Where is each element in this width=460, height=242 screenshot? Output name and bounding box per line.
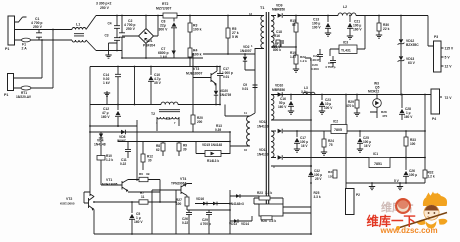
- svg-text:100 k: 100 k: [193, 53, 202, 57]
- svg-text:100 k: 100 k: [193, 28, 202, 32]
- svg-text:12 V: 12 V: [445, 65, 453, 69]
- svg-text:4 700 p: 4 700 p: [200, 222, 211, 226]
- svg-text:120: 120: [328, 175, 333, 179]
- svg-text:470: 470: [382, 114, 387, 118]
- svg-text:7805: 7805: [334, 128, 342, 132]
- svg-text:250 V: 250 V: [33, 25, 43, 29]
- svg-text:100 V: 100 V: [324, 106, 333, 110]
- svg-text:4 750 p: 4 750 p: [325, 65, 336, 69]
- svg-text:30: 30: [148, 159, 152, 163]
- svg-text:T1: T1: [260, 6, 264, 10]
- svg-text:0.0047: 0.0047: [310, 58, 320, 62]
- svg-text:R6: R6: [139, 172, 143, 176]
- svg-text:W06C: W06C: [117, 139, 127, 143]
- svg-text:1N4148: 1N4148: [94, 143, 106, 147]
- svg-text:12: 12: [249, 12, 253, 16]
- svg-text:VD15 1N4148: VD15 1N4148: [202, 143, 222, 147]
- svg-text:L1: L1: [76, 23, 80, 27]
- svg-text:18/220-AV: 18/220-AV: [16, 95, 32, 99]
- svg-text:VT4: VT4: [180, 177, 186, 181]
- svg-text:160 V: 160 V: [134, 220, 143, 224]
- svg-text:www.dzsc.com: www.dzsc.com: [380, 226, 438, 235]
- svg-text:1.87: 1.87: [290, 55, 296, 59]
- svg-text:1.2 k: 1.2 k: [428, 175, 435, 179]
- svg-text:0.22: 0.22: [120, 162, 126, 166]
- svg-text:T2: T2: [151, 112, 155, 116]
- svg-text:VT3: VT3: [193, 67, 199, 71]
- svg-text:5 W: 5 W: [232, 35, 239, 39]
- svg-text:39: 39: [146, 172, 150, 176]
- svg-text:250 V: 250 V: [100, 6, 110, 10]
- svg-text:100 V: 100 V: [312, 26, 321, 30]
- svg-text:P1: P1: [4, 93, 8, 97]
- svg-text:MBR856: MBR856: [272, 88, 285, 92]
- svg-text:P1: P1: [5, 47, 9, 51]
- svg-text:VD11: VD11: [259, 148, 267, 152]
- svg-text:0.01: 0.01: [223, 75, 229, 79]
- svg-text:VD1: VD1: [146, 39, 153, 43]
- svg-text:0.39: 0.39: [215, 128, 221, 132]
- svg-text:3.3 k: 3.3 k: [314, 195, 321, 199]
- svg-text:MJE13005: MJE13005: [102, 183, 118, 187]
- svg-text:1.2 k: 1.2 k: [300, 59, 307, 63]
- svg-text:TL431: TL431: [341, 49, 351, 53]
- svg-text:MZ72/30T: MZ72/30T: [156, 7, 172, 11]
- svg-text:11: 11: [244, 111, 247, 115]
- svg-text:160 V: 160 V: [404, 115, 413, 119]
- svg-text:VD16: VD16: [196, 197, 204, 201]
- svg-text:62: 62: [156, 148, 160, 152]
- svg-text:VD12: VD12: [259, 120, 267, 124]
- svg-text:VT2: VT2: [66, 197, 72, 201]
- svg-text:160 V: 160 V: [353, 28, 362, 32]
- svg-text:R16: R16: [274, 34, 280, 38]
- svg-text:0.22: 0.22: [182, 221, 188, 225]
- svg-text:4.3 k: 4.3 k: [212, 159, 219, 163]
- svg-text:1N4139: 1N4139: [257, 125, 269, 129]
- svg-text:TPN2906A: TPN2906A: [171, 182, 187, 186]
- svg-text:1N4148×3: 1N4148×3: [229, 202, 244, 206]
- svg-text:5 V: 5 V: [445, 56, 451, 60]
- svg-text:R31: R31: [328, 170, 334, 174]
- svg-text:P4: P4: [432, 117, 436, 121]
- svg-text:16 V: 16 V: [301, 144, 308, 148]
- svg-text:2 A: 2 A: [22, 47, 28, 51]
- svg-text:115 V: 115 V: [445, 47, 454, 51]
- svg-text:56: 56: [292, 23, 296, 27]
- svg-text:C3: C3: [105, 34, 109, 38]
- svg-text:72 V: 72 V: [445, 96, 453, 100]
- svg-text:0.01: 0.01: [242, 87, 248, 91]
- svg-text:160 V: 160 V: [101, 115, 110, 119]
- svg-text:25 V: 25 V: [315, 177, 322, 181]
- svg-text:C4: C4: [108, 22, 112, 26]
- svg-text:1N4139: 1N4139: [257, 153, 269, 157]
- svg-text:R26: R26: [261, 219, 267, 223]
- svg-text:MCR22: MCR22: [368, 90, 379, 94]
- svg-text:250 V: 250 V: [272, 45, 281, 49]
- svg-text:100 µ: 100 µ: [409, 173, 417, 177]
- svg-text:MBR856: MBR856: [272, 8, 285, 12]
- svg-text:VT1: VT1: [106, 178, 112, 182]
- svg-text:R23: R23: [257, 191, 263, 195]
- svg-text:BZX55C: BZX55C: [406, 43, 419, 47]
- svg-text:VD14: VD14: [241, 222, 249, 226]
- svg-text:P2: P2: [356, 193, 360, 197]
- svg-text:1 kV: 1 kV: [103, 81, 111, 85]
- svg-text:1 kV: 1 kV: [160, 55, 168, 59]
- svg-text:39: 39: [183, 148, 187, 152]
- svg-text:0.003: 0.003: [311, 67, 319, 71]
- svg-text:63 V: 63 V: [408, 61, 416, 65]
- svg-text:3.3µ: 3.3µ: [301, 90, 308, 94]
- svg-text:L2: L2: [343, 5, 347, 9]
- svg-text:300 V: 300 V: [159, 28, 169, 32]
- svg-text:PBF204: PBF204: [143, 44, 155, 48]
- svg-text:200: 200: [197, 120, 203, 124]
- svg-text:16 V: 16 V: [364, 144, 371, 148]
- svg-text:160 V: 160 V: [278, 105, 287, 109]
- svg-text:11: 11: [141, 195, 145, 199]
- svg-text:22 k: 22 k: [383, 27, 390, 31]
- svg-text:1N4007: 1N4007: [240, 49, 252, 53]
- svg-text:35 V: 35 V: [154, 81, 162, 85]
- svg-text:1N4739: 1N4739: [220, 93, 231, 97]
- svg-text:VD10: VD10: [275, 84, 283, 88]
- svg-text:IC3: IC3: [343, 41, 348, 45]
- svg-text:IC2: IC2: [333, 120, 338, 124]
- svg-text:P3: P3: [434, 35, 438, 39]
- svg-text:C18: C18: [276, 30, 282, 34]
- svg-text:1.2 k: 1.2 k: [106, 158, 113, 162]
- svg-text:7851: 7851: [374, 162, 382, 166]
- svg-text:1.3 k: 1.3 k: [269, 219, 276, 223]
- svg-text:250 V: 250 V: [126, 27, 136, 31]
- svg-text:KSE13005: KSE13005: [60, 202, 75, 206]
- svg-text:75: 75: [329, 143, 333, 147]
- svg-text:1.3 k: 1.3 k: [265, 191, 272, 195]
- svg-text:VD13: VD13: [229, 222, 237, 226]
- svg-text:IC1: IC1: [373, 152, 378, 156]
- svg-text:RT2: RT2: [162, 2, 169, 6]
- svg-text:100: 100: [176, 202, 182, 206]
- svg-text:MJE18007: MJE18007: [186, 72, 203, 76]
- svg-text:100: 100: [410, 142, 416, 146]
- svg-text:470 k: 470 k: [346, 104, 354, 108]
- svg-text:10: 10: [244, 148, 248, 152]
